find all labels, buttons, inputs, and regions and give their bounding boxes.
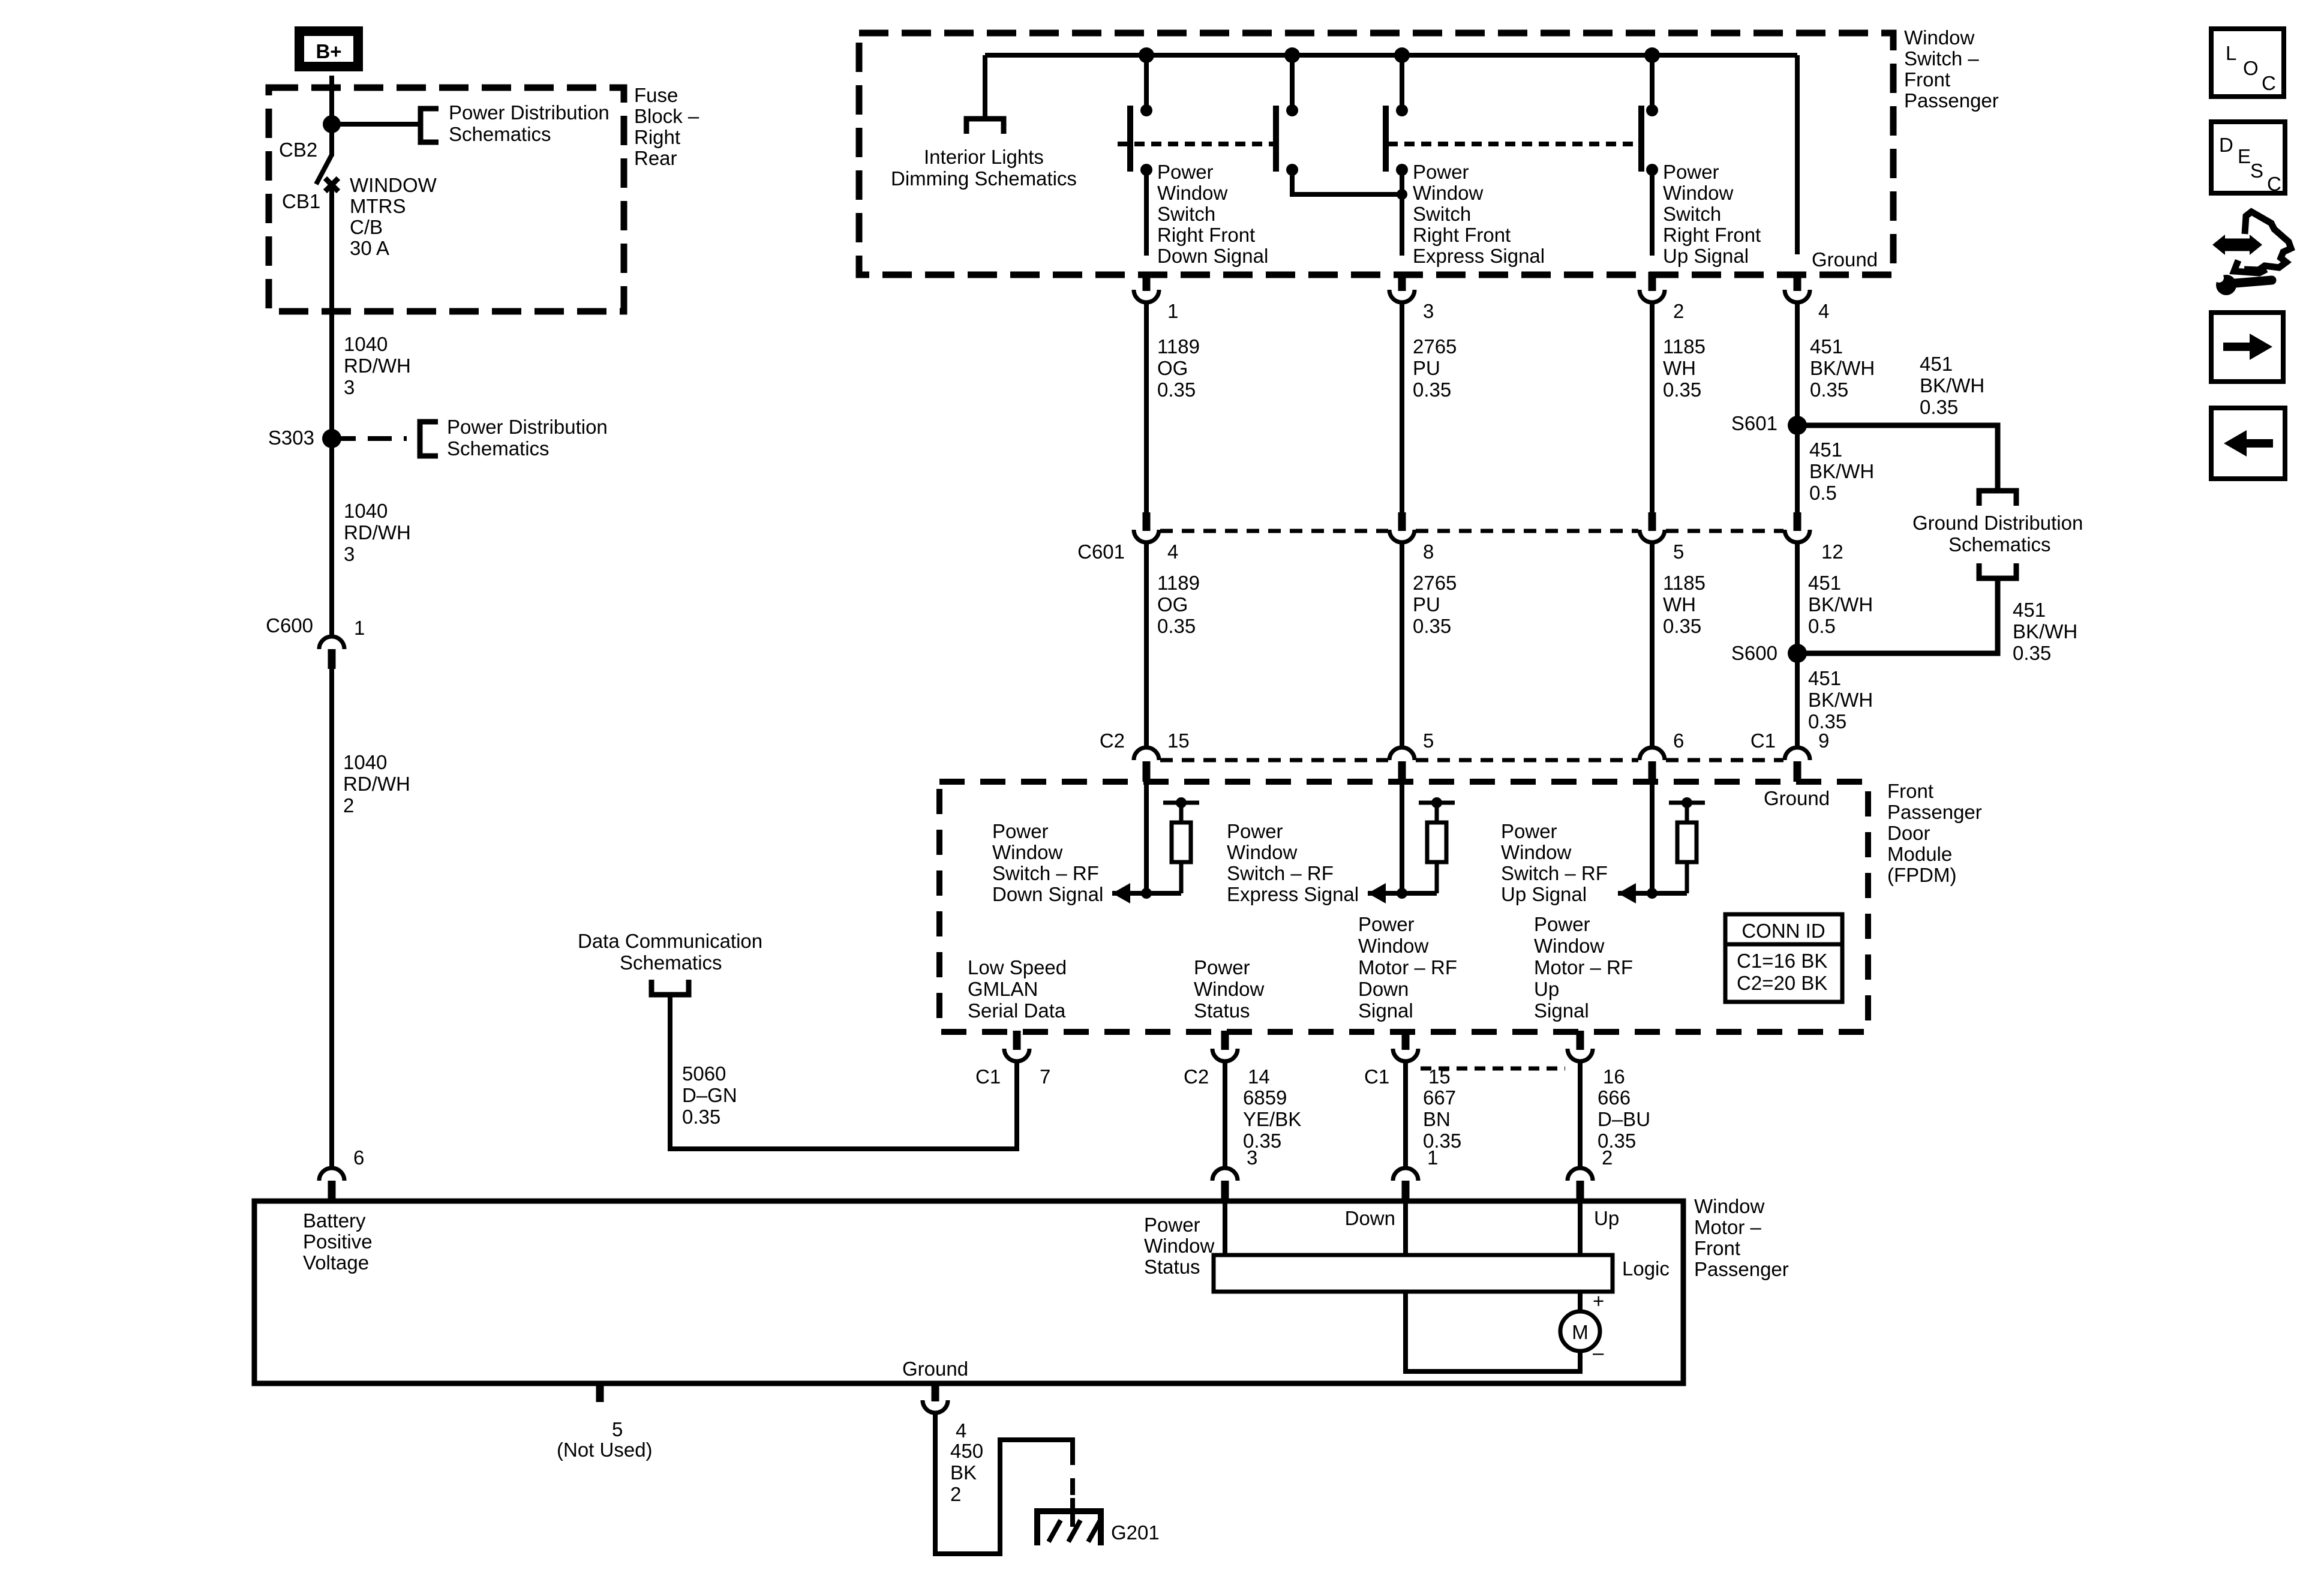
svg-text:451: 451	[1808, 572, 1841, 594]
wire S601 to C601-12	[1795, 425, 1800, 514]
window switch dashed box - Window Switch Front Passenger	[859, 33, 1893, 275]
connector pin 3 window switch	[1398, 272, 1406, 291]
wire logic to motor plus	[1578, 1292, 1583, 1314]
connector FPDM pin 14	[1221, 1031, 1229, 1050]
svg-text:Window: Window	[1358, 935, 1429, 957]
dashed wire to G201	[1070, 1448, 1075, 1498]
svg-text:Battery: Battery	[303, 1209, 366, 1232]
svg-text:Motor –: Motor –	[1694, 1216, 1762, 1238]
svg-text:OG: OG	[1157, 357, 1188, 379]
svg-text:Power: Power	[1194, 956, 1250, 978]
off-page bracket Power Distribution Schematics (top)	[421, 109, 439, 142]
wire drop to interior lights bracket	[983, 55, 987, 119]
dashed link between pins 15 and 16	[1421, 1067, 1565, 1071]
svg-text:8: 8	[1423, 541, 1434, 563]
switch fixed contacts x=1911	[1140, 104, 1152, 116]
svg-text:G201: G201	[1111, 1521, 1160, 1544]
icon LOC box	[2211, 29, 2284, 97]
svg-text:Schematics: Schematics	[447, 437, 550, 460]
svg-text:451: 451	[2013, 599, 2046, 621]
svg-text:Signal: Signal	[1534, 999, 1589, 1022]
svg-text:Dimming Schematics: Dimming Schematics	[891, 167, 1077, 190]
svg-text:2765: 2765	[1413, 572, 1457, 594]
CONN ID table box	[1725, 914, 1842, 1002]
svg-text:Motor – RF: Motor – RF	[1358, 956, 1457, 978]
svg-text:0.35: 0.35	[1663, 379, 1701, 401]
svg-text:S303: S303	[268, 427, 314, 449]
svg-text:Up Signal: Up Signal	[1501, 883, 1587, 905]
svg-text:C1: C1	[975, 1065, 1001, 1088]
inline connector row C2/C1 dotted line	[1160, 758, 1388, 763]
svg-text:Voltage: Voltage	[303, 1251, 369, 1274]
ground G201 symbol	[1037, 1511, 1101, 1545]
svg-text:7: 7	[1040, 1065, 1050, 1088]
svg-text:Interior Lights: Interior Lights	[924, 146, 1044, 168]
svg-text:Switch – RF: Switch – RF	[1501, 862, 1608, 884]
icon back arrow box	[2211, 408, 2285, 479]
svg-text:0.5: 0.5	[1809, 482, 1837, 504]
svg-text:450: 450	[950, 1440, 983, 1462]
junction dot express jog	[1397, 189, 1407, 200]
svg-text:Power: Power	[1227, 820, 1283, 842]
connector window motor pin 1	[1393, 1168, 1418, 1181]
splice S601	[1788, 416, 1807, 435]
svg-text:CB2: CB2	[279, 139, 317, 161]
wire pin14 to motor pin3	[1223, 1060, 1227, 1169]
svg-text:0.35: 0.35	[1413, 615, 1451, 637]
svg-text:Passenger: Passenger	[1904, 89, 1999, 112]
off-page bracket Ground Distribution Schematics (top)	[1979, 491, 2016, 506]
wire C601-5 to C2-6	[1650, 544, 1655, 749]
logic block	[1214, 1255, 1613, 1292]
svg-text:RD/WH: RD/WH	[344, 355, 411, 377]
wire bus drop to switch contact x=1911	[1144, 55, 1149, 108]
svg-text:4: 4	[1167, 541, 1178, 563]
svg-text:12: 12	[1821, 541, 1843, 563]
resistor down (pull-up)	[1163, 801, 1199, 805]
svg-text:(FPDM): (FPDM)	[1887, 864, 1956, 886]
FPDM dashed box - Front Passenger Door Module	[939, 782, 1868, 1032]
svg-text:Switch – RF: Switch – RF	[992, 862, 1099, 884]
wire pin4 to splice S601	[1795, 301, 1800, 425]
svg-text:Switch: Switch	[1663, 203, 1721, 225]
off-page bracket Interior Lights Dimming Schematics	[966, 119, 1004, 134]
wire C600 down to window motor pin 6	[329, 669, 334, 1169]
svg-text:16: 16	[1603, 1065, 1625, 1088]
svg-text:451: 451	[1809, 439, 1842, 461]
svg-text:Down: Down	[1345, 1207, 1395, 1229]
switch blade bar - down switch left	[1127, 106, 1133, 172]
svg-text:Window: Window	[1663, 182, 1734, 204]
svg-text:1040: 1040	[344, 333, 388, 355]
svg-text:667: 667	[1423, 1086, 1456, 1109]
svg-text:S601: S601	[1731, 412, 1777, 434]
svg-text:Rear: Rear	[634, 147, 677, 169]
wire junction to power distribution bracket	[332, 122, 420, 127]
wire bus corner down to ground pin	[1795, 55, 1800, 254]
svg-text:+: +	[1593, 1290, 1604, 1312]
connector window motor pin 3	[1212, 1168, 1238, 1181]
svg-text:5: 5	[1423, 730, 1434, 752]
wire arrow line express	[1368, 891, 1437, 896]
connector C600 pin 1	[319, 637, 344, 649]
svg-text:451: 451	[1810, 335, 1843, 358]
switch blade bar - express switch left	[1383, 106, 1389, 172]
svg-text:RD/WH: RD/WH	[343, 773, 410, 795]
wire bus drop to switch contact x=2337	[1400, 55, 1404, 108]
junction node to power distribution	[323, 115, 341, 133]
wire S601 to ground distribution (right branch)	[1797, 425, 1998, 490]
svg-text:Right: Right	[634, 126, 680, 148]
svg-text:B+: B+	[316, 40, 341, 62]
connector row2 pin 5	[1389, 748, 1415, 760]
resistor up (pull-up)	[1669, 801, 1705, 805]
svg-text:Power Distribution: Power Distribution	[449, 101, 609, 124]
svg-text:C2=20 BK: C2=20 BK	[1737, 972, 1827, 994]
wire express pole jog	[1292, 170, 1402, 194]
bus junction dot x=2337	[1394, 47, 1410, 63]
connector pin 2 window switch	[1649, 272, 1656, 291]
svg-text:C: C	[2262, 72, 2276, 94]
svg-text:5: 5	[1673, 541, 1684, 563]
svg-text:0.35: 0.35	[1157, 379, 1196, 401]
connector pin 1 window switch	[1143, 272, 1151, 291]
bus junction dot x=2754	[1644, 47, 1660, 63]
inline connector row C601 dotted line	[1160, 529, 1388, 533]
svg-text:Schematics: Schematics	[449, 123, 551, 145]
svg-text:E: E	[2238, 145, 2251, 167]
splice S600	[1788, 644, 1807, 663]
connector pin 4 window switch	[1794, 272, 1801, 291]
svg-text:6859: 6859	[1243, 1086, 1287, 1109]
wire ground distribution to S600	[1797, 578, 1998, 653]
mechanical dashed link express-up	[1388, 142, 1641, 146]
connector row2 pin 15	[1134, 748, 1159, 760]
wire pin16 to motor pin2	[1578, 1060, 1583, 1169]
svg-text:Front: Front	[1694, 1237, 1740, 1259]
svg-text:Down Signal: Down Signal	[992, 883, 1103, 905]
svg-text:1040: 1040	[343, 751, 387, 773]
svg-text:Switch: Switch	[1157, 203, 1215, 225]
icon forward arrow box	[2211, 313, 2283, 382]
connector FPDM pin 15	[1402, 1031, 1410, 1050]
svg-text:Ground: Ground	[902, 1358, 968, 1380]
svg-text:4: 4	[1818, 300, 1829, 322]
svg-text:D–GN: D–GN	[682, 1084, 737, 1106]
connector FPDM pin 7	[1013, 1031, 1021, 1050]
wire pin2 to C601-5	[1650, 301, 1655, 514]
icon DESC box	[2211, 122, 2285, 193]
svg-text:Power: Power	[1501, 820, 1557, 842]
svg-text:Front: Front	[1904, 68, 1950, 91]
svg-text:Passenger: Passenger	[1694, 1258, 1789, 1280]
wire down-switch output to pin 1	[1144, 170, 1149, 256]
svg-text:0.35: 0.35	[1663, 615, 1701, 637]
svg-text:Ground Distribution: Ground Distribution	[1912, 512, 2083, 534]
dashed wire S303 to power distribution bracket	[332, 436, 407, 441]
svg-text:Door: Door	[1887, 822, 1930, 844]
svg-text:Switch – RF: Switch – RF	[1227, 862, 1334, 884]
wire C601-12 to S600	[1795, 544, 1800, 653]
svg-text:Up: Up	[1534, 978, 1559, 1000]
svg-text:6: 6	[353, 1146, 364, 1169]
svg-text:14: 14	[1248, 1065, 1270, 1088]
motor M	[1560, 1311, 1600, 1351]
svg-text:Serial Data: Serial Data	[968, 999, 1066, 1022]
wire CB1 down to S303	[329, 184, 334, 439]
switch fixed contacts x=2337	[1396, 104, 1408, 116]
wire express output to pin 3	[1400, 170, 1404, 256]
svg-text:MTRS: MTRS	[350, 195, 406, 217]
svg-text:Down Signal: Down Signal	[1157, 245, 1268, 267]
wire pin2 into logic	[1578, 1201, 1583, 1255]
svg-text:YE/BK: YE/BK	[1243, 1108, 1301, 1130]
svg-text:2: 2	[343, 794, 354, 816]
off-page bracket Ground Distribution Schematics (bottom)	[1979, 563, 2016, 578]
svg-text:C600: C600	[266, 614, 313, 637]
svg-text:Power: Power	[1534, 913, 1590, 935]
svg-text:CB1: CB1	[282, 190, 320, 212]
connector C601 pin 4	[1143, 512, 1151, 531]
connector row2 pin 9	[1785, 748, 1810, 760]
wire C601-8 to C2-5	[1400, 544, 1404, 749]
svg-text:Data Communication: Data Communication	[578, 930, 762, 952]
svg-text:2: 2	[1602, 1146, 1613, 1169]
svg-text:C2: C2	[1100, 730, 1125, 752]
svg-text:BK/WH: BK/WH	[1810, 357, 1875, 379]
svg-text:Window: Window	[1904, 26, 1975, 49]
svg-text:Fuse: Fuse	[634, 84, 678, 106]
connector window motor pin 4 ground	[932, 1382, 939, 1401]
svg-text:Low Speed: Low Speed	[968, 956, 1067, 978]
wire arrow line up	[1618, 891, 1687, 896]
svg-text:C: C	[2267, 173, 2281, 195]
svg-text:1189: 1189	[1157, 572, 1200, 594]
svg-text:0.35: 0.35	[682, 1106, 720, 1128]
svg-text:GMLAN: GMLAN	[968, 978, 1038, 1000]
bus junction dot x=1911	[1139, 47, 1154, 63]
svg-text:1: 1	[1427, 1146, 1438, 1169]
svg-text:Power: Power	[1157, 161, 1214, 183]
circuit breaker CB1/CB2 blade	[329, 124, 334, 156]
switch supply bus wire	[985, 53, 1797, 58]
circuit breaker X contact mark	[325, 178, 338, 191]
wire pin1 to C601-4	[1144, 301, 1149, 514]
svg-text:1: 1	[1167, 300, 1178, 322]
svg-text:–: –	[1593, 1341, 1604, 1364]
svg-text:Power: Power	[1358, 913, 1415, 935]
svg-text:5060: 5060	[682, 1062, 726, 1085]
wrench icon	[2216, 275, 2236, 295]
arrowhead up	[1618, 883, 1636, 903]
connector row2 pin 6	[1640, 748, 1665, 760]
svg-text:Window: Window	[1501, 841, 1572, 863]
svg-text:0.35: 0.35	[1920, 396, 1958, 418]
svg-text:Right Front: Right Front	[1663, 224, 1761, 246]
svg-text:Positive: Positive	[303, 1230, 373, 1253]
svg-text:0.35: 0.35	[1810, 379, 1848, 401]
svg-text:WH: WH	[1663, 593, 1696, 616]
svg-text:0.35: 0.35	[2013, 642, 2051, 664]
svg-text:Right Front: Right Front	[1157, 224, 1255, 246]
svg-text:D: D	[2219, 134, 2233, 156]
connector window motor pin 6	[319, 1168, 344, 1181]
svg-text:6: 6	[1673, 730, 1684, 752]
svg-text:Window: Window	[1227, 841, 1298, 863]
wire pin4 to G201	[935, 1412, 1073, 1554]
svg-text:BK/WH: BK/WH	[1809, 460, 1874, 482]
switch fixed contacts x=2754	[1646, 104, 1658, 116]
svg-text:BK/WH: BK/WH	[1920, 374, 1984, 397]
svg-text:C1: C1	[1364, 1065, 1389, 1088]
svg-text:4: 4	[956, 1419, 966, 1442]
wire S303 down to C600	[329, 439, 334, 637]
svg-text:Power: Power	[1663, 161, 1719, 183]
svg-text:BK: BK	[950, 1461, 977, 1484]
svg-text:L: L	[2226, 42, 2236, 64]
switch fixed contacts x=2154	[1286, 104, 1298, 116]
svg-text:451: 451	[1808, 667, 1841, 689]
wire bus drop to switch contact x=2154	[1290, 55, 1295, 108]
svg-text:2765: 2765	[1413, 335, 1457, 358]
svg-text:(Not Used): (Not Used)	[557, 1439, 653, 1461]
svg-text:Window: Window	[1157, 182, 1228, 204]
svg-text:Block –: Block –	[634, 105, 699, 127]
svg-text:Express Signal: Express Signal	[1413, 245, 1545, 267]
wire arrow line down	[1112, 891, 1181, 896]
wire FPDM input up column	[1650, 782, 1655, 893]
svg-text:3: 3	[1423, 300, 1434, 322]
svg-text:BN: BN	[1423, 1108, 1451, 1130]
svg-text:Ground: Ground	[1764, 787, 1830, 809]
wire B+ to fuse block junction	[329, 76, 334, 127]
svg-text:Window: Window	[1534, 935, 1605, 957]
connector window motor pin 2	[1568, 1168, 1593, 1181]
svg-text:C1=16 BK: C1=16 BK	[1737, 950, 1827, 972]
svg-text:1185: 1185	[1663, 335, 1706, 358]
wire pin15 to motor pin1	[1403, 1060, 1408, 1169]
svg-text:2: 2	[1673, 300, 1684, 322]
svg-text:9: 9	[1818, 730, 1829, 752]
wire pin1 through logic to motor loop	[1403, 1201, 1408, 1255]
svg-text:Power: Power	[1413, 161, 1469, 183]
wire pin7 to data communication	[670, 995, 1017, 1149]
svg-text:Switch –: Switch –	[1904, 47, 1979, 70]
icon vehicle with arrow and wrench	[2244, 212, 2291, 270]
svg-text:S: S	[2250, 160, 2263, 182]
switch blade bar - up switch	[1638, 106, 1644, 172]
svg-text:Schematics: Schematics	[620, 951, 722, 974]
wire motor minus loop	[1406, 1351, 1580, 1371]
svg-text:WH: WH	[1663, 357, 1696, 379]
wire pin3 into logic	[1223, 1201, 1227, 1255]
svg-text:2: 2	[950, 1483, 961, 1505]
svg-text:RD/WH: RD/WH	[344, 521, 411, 544]
svg-text:Up Signal: Up Signal	[1663, 245, 1749, 267]
svg-text:30 A: 30 A	[350, 237, 389, 259]
connector C601 pin 12	[1794, 512, 1801, 531]
wire FPDM input express column	[1400, 782, 1404, 893]
svg-text:Front: Front	[1887, 780, 1933, 802]
svg-text:C601: C601	[1077, 541, 1125, 563]
svg-text:Signal: Signal	[1358, 999, 1413, 1022]
bus junction dot x=2154	[1284, 47, 1300, 63]
svg-text:1040: 1040	[344, 500, 388, 522]
svg-text:666: 666	[1598, 1086, 1631, 1109]
wire FPDM input down column	[1144, 782, 1149, 893]
off-page bracket Data Communication Schematics	[651, 980, 689, 995]
wire pin3 to C601-8	[1400, 301, 1404, 514]
fuse block dashed box - Fuse Block Right Rear	[269, 88, 624, 311]
svg-text:Window: Window	[1694, 1195, 1765, 1217]
wire up-switch output to pin 2	[1650, 170, 1655, 256]
wire C601-4 to C2-15	[1144, 544, 1149, 749]
svg-text:Ground: Ground	[1812, 248, 1878, 271]
svg-text:3: 3	[344, 376, 355, 398]
svg-text:Express Signal: Express Signal	[1227, 883, 1359, 905]
svg-text:1: 1	[354, 617, 365, 639]
svg-text:PU: PU	[1413, 593, 1440, 616]
svg-text:Down: Down	[1358, 978, 1409, 1000]
svg-text:1189: 1189	[1157, 335, 1200, 358]
B+ battery feed terminal	[295, 26, 363, 71]
svg-text:C/B: C/B	[350, 216, 383, 238]
svg-text:0.35: 0.35	[1157, 615, 1196, 637]
svg-text:BK/WH: BK/WH	[1808, 593, 1873, 616]
svg-text:451: 451	[1920, 353, 1953, 375]
svg-text:S600: S600	[1731, 642, 1777, 664]
svg-text:Switch: Switch	[1413, 203, 1471, 225]
svg-text:Logic: Logic	[1622, 1257, 1670, 1280]
svg-text:0.35: 0.35	[1413, 379, 1451, 401]
svg-text:M: M	[1572, 1321, 1589, 1343]
connector FPDM pin 16	[1577, 1031, 1584, 1050]
svg-text:Schematics: Schematics	[1948, 533, 2051, 556]
svg-text:Status: Status	[1144, 1256, 1200, 1278]
svg-text:Power Distribution: Power Distribution	[447, 416, 608, 438]
svg-text:WINDOW: WINDOW	[350, 174, 437, 196]
svg-text:Window: Window	[992, 841, 1063, 863]
svg-text:15: 15	[1167, 730, 1190, 752]
mechanical dashed link down-express	[1118, 142, 1276, 146]
connector window motor pin 5 stub (not used)	[596, 1382, 604, 1402]
svg-text:Right Front: Right Front	[1413, 224, 1511, 246]
svg-text:PU: PU	[1413, 357, 1440, 379]
window motor solid box - Window Motor Front Passenger	[254, 1201, 1683, 1383]
svg-text:0.5: 0.5	[1808, 615, 1836, 637]
svg-text:C2: C2	[1184, 1065, 1209, 1088]
splice S303	[322, 429, 341, 448]
svg-text:Motor – RF: Motor – RF	[1534, 956, 1633, 978]
switch blade bar - down switch right	[1273, 106, 1279, 172]
connector C601 pin 8	[1398, 512, 1406, 531]
svg-text:Status: Status	[1194, 999, 1250, 1022]
svg-text:Module: Module	[1887, 843, 1952, 865]
svg-text:1185: 1185	[1663, 572, 1706, 594]
svg-text:BK/WH: BK/WH	[2013, 620, 2077, 643]
svg-text:Window: Window	[1413, 182, 1484, 204]
wire bus drop to switch contact x=2754	[1650, 55, 1655, 108]
svg-text:C1: C1	[1750, 730, 1776, 752]
arrowhead express	[1368, 883, 1386, 903]
svg-text:Passenger: Passenger	[1887, 801, 1982, 823]
svg-text:O: O	[2243, 57, 2259, 79]
svg-text:3: 3	[1247, 1146, 1257, 1169]
svg-text:CONN ID: CONN ID	[1742, 920, 1825, 942]
svg-text:Power: Power	[1144, 1214, 1200, 1236]
svg-text:Window: Window	[1144, 1235, 1215, 1257]
svg-text:D–BU: D–BU	[1598, 1108, 1650, 1130]
